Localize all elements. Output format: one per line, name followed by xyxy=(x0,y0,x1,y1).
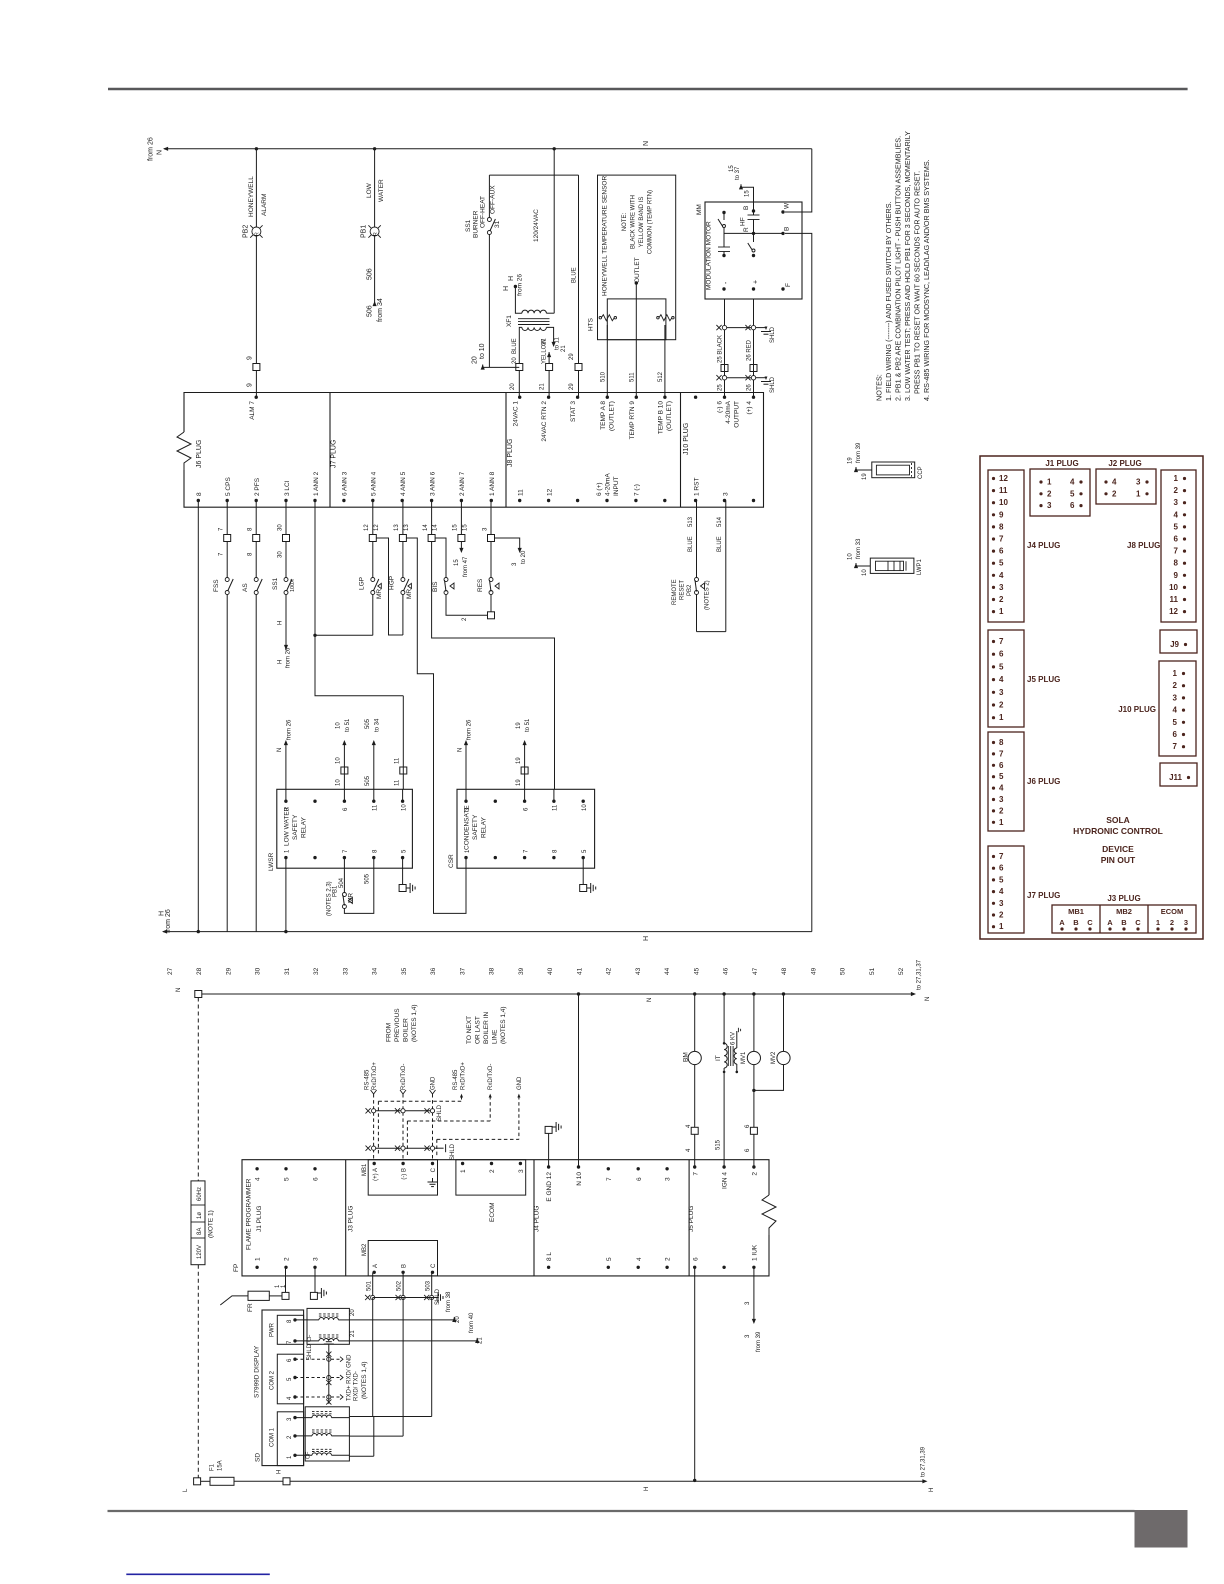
svg-text:2: 2 xyxy=(1047,489,1052,498)
svg-text:2. PB1 & PB2 ARE COMBINATION: 2. PB1 & PB2 ARE COMBINATION PILOT LIGHT… xyxy=(894,136,903,401)
relay LWSR low water safety relay box xyxy=(268,789,412,871)
svg-text:from 26: from 26 xyxy=(517,274,524,296)
pin J8 TEMP RTN 9 xyxy=(629,396,638,440)
svg-text:24VAC 1: 24VAC 1 xyxy=(512,401,519,427)
svg-text:HYDRONIC CONTROL: HYDRONIC CONTROL xyxy=(1073,826,1163,836)
svg-text:14: 14 xyxy=(433,524,439,531)
svg-text:HGP: HGP xyxy=(389,576,396,590)
svg-text:HF: HF xyxy=(740,217,747,226)
pin J7 1 ANN 8 xyxy=(489,471,496,502)
svg-text:502: 502 xyxy=(397,1280,403,1291)
svg-text:2: 2 xyxy=(665,1257,672,1261)
pin J7 6 ANN 3 xyxy=(342,471,349,502)
svg-text:MB1: MB1 xyxy=(362,1163,368,1176)
svg-text:4: 4 xyxy=(999,784,1004,793)
svg-text:6: 6 xyxy=(313,1177,320,1181)
connector ECOM box xyxy=(456,1160,526,1222)
svg-text:HONEYWELL: HONEYWELL xyxy=(248,176,255,217)
svg-text:48: 48 xyxy=(781,967,788,975)
svg-text:(OUTLET): (OUTLET) xyxy=(666,401,673,431)
svg-text:from 47: from 47 xyxy=(463,556,469,577)
svg-text:B: B xyxy=(402,1264,408,1268)
panel J10 plug xyxy=(1118,661,1196,756)
svg-text:5: 5 xyxy=(999,875,1004,884)
svg-text:13: 13 xyxy=(394,524,400,531)
svg-text:511: 511 xyxy=(630,372,636,382)
svg-text:FR: FR xyxy=(247,1303,254,1312)
svg-text:SHLD: SHLD xyxy=(437,1104,443,1121)
svg-text:49: 49 xyxy=(810,967,817,975)
pin J5 1 IUK xyxy=(752,1244,759,1269)
svg-text:11: 11 xyxy=(518,489,525,496)
svg-text:NOTE:: NOTE: xyxy=(622,213,628,232)
svg-text:PWR: PWR xyxy=(270,1322,276,1337)
svg-text:RS-485: RS-485 xyxy=(453,1069,459,1090)
svg-text:7: 7 xyxy=(692,1172,699,1176)
svg-text:to 20: to 20 xyxy=(521,550,527,564)
svg-text:11: 11 xyxy=(999,486,1008,495)
svg-text:BOILER IN: BOILER IN xyxy=(483,1012,490,1044)
svg-text:60Hz: 60Hz xyxy=(197,1187,203,1201)
svg-text:RELAY: RELAY xyxy=(481,817,488,838)
display S7999D box xyxy=(254,1310,304,1466)
wire 26 RED motor plus to J10 xyxy=(745,299,757,397)
svg-text:RESET: RESET xyxy=(680,580,686,600)
svg-text:OUTLET: OUTLET xyxy=(634,257,641,283)
svg-text:RELAY: RELAY xyxy=(301,817,308,838)
rs485 labels from previous boiler xyxy=(386,1004,419,1042)
component LWP1 10 from 33 xyxy=(848,538,924,576)
svg-text:501: 501 xyxy=(366,1280,372,1291)
relay CSR condensate safety relay box xyxy=(448,789,595,868)
svg-text:3: 3 xyxy=(999,899,1004,908)
pin J1 3 bottom xyxy=(313,1257,320,1269)
svg-text:XF1: XF1 xyxy=(506,315,513,327)
wire 21 from 40 xyxy=(349,1312,483,1344)
wire right side drop from N rail to modulation motor W xyxy=(785,149,812,212)
svg-text:H: H xyxy=(277,1470,283,1474)
svg-text:3: 3 xyxy=(999,688,1004,697)
svg-text:E GND 12: E GND 12 xyxy=(546,1172,553,1202)
svg-text:TEMP B 10: TEMP B 10 xyxy=(658,401,665,435)
svg-text:11: 11 xyxy=(373,804,379,811)
wire J5 pin6 to H rail xyxy=(693,1267,696,1482)
svg-text:7: 7 xyxy=(999,535,1004,544)
terminal 2 and switch RES xyxy=(477,501,499,619)
svg-text:28: 28 xyxy=(196,967,203,975)
svg-text:10: 10 xyxy=(1169,583,1178,592)
svg-text:6: 6 xyxy=(999,864,1004,873)
svg-text:26: 26 xyxy=(747,384,753,391)
wire J5 IUK 3 from 39 xyxy=(745,1267,762,1352)
svg-text:3: 3 xyxy=(1184,918,1188,927)
svg-text:B: B xyxy=(1073,918,1079,927)
svg-text:from 26: from 26 xyxy=(286,647,292,668)
svg-text:PB1: PB1 xyxy=(333,885,339,897)
svg-text:513: 513 xyxy=(688,516,694,527)
svg-text:1: 1 xyxy=(255,1257,262,1261)
svg-text:OFF-AUX: OFF-AUX xyxy=(490,185,497,214)
svg-text:44: 44 xyxy=(664,967,671,975)
svg-text:3: 3 xyxy=(999,795,1004,804)
svg-text:SAFETY: SAFETY xyxy=(292,814,299,840)
svg-text:1: 1 xyxy=(999,922,1004,931)
wire 511 outlet xyxy=(630,281,639,397)
svg-text:4: 4 xyxy=(636,1257,643,1261)
display PWR pins 8 7 xyxy=(287,1318,319,1344)
svg-text:503: 503 xyxy=(425,1280,431,1291)
wire terminal 14 to CSR pin 11 xyxy=(432,542,555,790)
svg-text:120/24VAC: 120/24VAC xyxy=(533,209,540,242)
page number box bottom right xyxy=(1135,1510,1188,1548)
svg-text:MR: MR xyxy=(376,589,383,599)
svg-text:N: N xyxy=(157,150,164,155)
svg-text:4: 4 xyxy=(999,675,1004,684)
svg-text:F1: F1 xyxy=(210,1463,216,1471)
pin J6 ALM 7 top xyxy=(249,396,258,420)
svg-text:ALM 7: ALM 7 xyxy=(249,401,256,420)
svg-text:2: 2 xyxy=(1173,681,1178,690)
svg-text:15A: 15A xyxy=(218,1460,224,1471)
svg-text:11: 11 xyxy=(1170,595,1179,604)
svg-text:COM 1: COM 1 xyxy=(270,1427,276,1447)
svg-text:14: 14 xyxy=(423,524,429,531)
svg-text:2: 2 xyxy=(1174,486,1179,495)
svg-text:11: 11 xyxy=(395,757,401,764)
modulation motor MM box xyxy=(696,202,802,299)
pin J8 TEMP A 8 (OUTLET) xyxy=(600,396,616,431)
svg-text:8: 8 xyxy=(196,492,203,496)
svg-text:3: 3 xyxy=(313,1257,320,1261)
svg-text:PRESS PB1 TO RESET OR WAIT 60: PRESS PB1 TO RESET OR WAIT 60 SECONDS FO… xyxy=(913,171,922,394)
svg-text:4. RS-485 WIRING FOR MODSYNC,: 4. RS-485 WIRING FOR MODSYNC, LEAD/LAG A… xyxy=(922,159,931,401)
svg-text:10: 10 xyxy=(336,779,342,786)
svg-text:R: R xyxy=(743,227,750,232)
svg-text:8 L: 8 L xyxy=(546,1252,553,1261)
svg-text:50: 50 xyxy=(840,967,847,975)
svg-text:from 38: from 38 xyxy=(446,1291,452,1312)
pin J4 8 L xyxy=(546,1252,553,1269)
svg-text:515: 515 xyxy=(716,1139,722,1150)
svg-text:TO NEXT: TO NEXT xyxy=(466,1016,473,1044)
svg-text:12: 12 xyxy=(999,474,1008,483)
svg-text:PB1: PB1 xyxy=(361,225,368,238)
svg-text:(NOTES 2): (NOTES 2) xyxy=(705,580,711,610)
svg-text:7: 7 xyxy=(1173,742,1178,751)
svg-text:OFF-HEAT: OFF-HEAT xyxy=(480,196,487,228)
svg-text:32: 32 xyxy=(313,967,320,975)
svg-text:5: 5 xyxy=(1173,718,1178,727)
svg-text:1ø: 1ø xyxy=(197,1212,203,1219)
svg-text:12: 12 xyxy=(364,524,370,531)
svg-text:1 IUK: 1 IUK xyxy=(752,1244,759,1261)
svg-text:3: 3 xyxy=(1173,693,1178,702)
svg-text:505: 505 xyxy=(365,775,371,786)
wire 510 xyxy=(601,325,608,397)
svg-text:7: 7 xyxy=(999,637,1004,646)
svg-text:2: 2 xyxy=(284,1257,291,1261)
svg-text:37: 37 xyxy=(459,967,466,975)
svg-text:BM: BM xyxy=(683,1052,690,1062)
pin J8 24VAC 1 xyxy=(512,396,521,427)
svg-text:J5 PLUG: J5 PLUG xyxy=(1027,675,1060,684)
panel J9 plug xyxy=(1160,630,1197,653)
svg-text:10: 10 xyxy=(862,569,868,576)
svg-text:1: 1 xyxy=(1136,489,1141,498)
svg-text:3. LOW WATER TEST; PRESS AND: 3. LOW WATER TEST; PRESS AND HOLD PB1 FO… xyxy=(903,131,912,401)
svg-text:15: 15 xyxy=(454,559,460,566)
svg-text:H: H xyxy=(929,1488,935,1492)
svg-text:505: 505 xyxy=(365,873,371,884)
svg-text:MR: MR xyxy=(348,893,355,903)
terminal 30 and switch SS1 to H xyxy=(272,501,296,669)
display COM1 pins xyxy=(287,1416,312,1459)
svg-text:+: + xyxy=(753,280,760,284)
rs485 wiring MB1 cluster xyxy=(365,1062,457,1160)
svg-text:10: 10 xyxy=(848,553,854,560)
svg-text:39: 39 xyxy=(518,967,525,975)
svg-text:RxD/TxD+: RxD/TxD+ xyxy=(461,1062,467,1090)
pin J6 5 CPS xyxy=(225,477,232,503)
svg-text:H: H xyxy=(503,286,510,291)
flame rod FR xyxy=(220,1267,289,1312)
wire N to J4 pin N 10 xyxy=(578,994,580,1167)
pin J10 1 RST xyxy=(693,478,700,503)
svg-text:2 PFS: 2 PFS xyxy=(254,477,261,496)
pilot light PB1 LOW WATER, wire 506 xyxy=(361,147,385,322)
svg-text:4: 4 xyxy=(1070,478,1075,487)
svg-text:ALARM: ALARM xyxy=(261,194,268,216)
svg-text:J10 PLUG: J10 PLUG xyxy=(683,423,690,455)
terminal 8 and switch AS xyxy=(242,501,262,932)
pin J10 blank bottom xyxy=(752,499,755,502)
svg-text:(NOTES 1,4): (NOTES 1,4) xyxy=(411,1004,418,1042)
svg-text:H: H xyxy=(643,936,650,941)
svg-text:12: 12 xyxy=(1169,607,1178,616)
svg-text:36: 36 xyxy=(430,967,437,975)
pin J1 5 top xyxy=(284,1167,291,1181)
svg-text:BLUE: BLUE xyxy=(512,338,518,354)
svg-text:5 CPS: 5 CPS xyxy=(225,477,232,496)
svg-text:LWSR: LWSR xyxy=(268,852,275,871)
pin J8 6 (+) 4-20mA INPUT xyxy=(596,473,620,503)
svg-text:to 51: to 51 xyxy=(525,718,531,732)
svg-text:J8 PLUG: J8 PLUG xyxy=(507,439,514,467)
motor valve MV1 xyxy=(741,994,761,1167)
svg-text:FP: FP xyxy=(233,1264,240,1272)
svg-text:W: W xyxy=(784,202,791,209)
svg-text:8A: 8A xyxy=(197,1228,203,1235)
svg-text:19: 19 xyxy=(516,722,522,729)
svg-text:TEMP RTN 9: TEMP RTN 9 xyxy=(629,401,636,440)
svg-text:12: 12 xyxy=(546,488,553,496)
panel J11 plug xyxy=(1160,763,1197,786)
panel J7 plug xyxy=(988,846,1060,933)
svg-text:BURNER: BURNER xyxy=(473,210,480,238)
svg-text:9: 9 xyxy=(247,383,254,387)
svg-text:J6 PLUG: J6 PLUG xyxy=(196,440,203,468)
svg-text:SOLA: SOLA xyxy=(1106,815,1130,825)
pin J10 (-) 6 4-20mA OUTPUT xyxy=(717,396,741,428)
svg-text:from 26: from 26 xyxy=(165,909,172,933)
svg-text:9: 9 xyxy=(999,510,1004,519)
svg-text:N: N xyxy=(643,141,650,146)
wire LWSR pin11 505 to 34 xyxy=(365,718,380,789)
svg-text:BOILER: BOILER xyxy=(403,1018,410,1042)
pin J6 8 xyxy=(196,492,203,502)
svg-text:19: 19 xyxy=(516,757,522,764)
pin J10 (+) 4 xyxy=(746,396,755,415)
svg-text:7: 7 xyxy=(999,852,1004,861)
pin J7 3 ANN 6 xyxy=(429,471,436,502)
terminal 12 and switch LGP xyxy=(313,501,383,638)
pin J1 4 top xyxy=(255,1167,262,1181)
svg-text:S7999D DISPLAY: S7999D DISPLAY xyxy=(254,1345,261,1398)
svg-text:6: 6 xyxy=(999,547,1004,556)
page bottom border xyxy=(108,1510,1135,1512)
svg-text:21: 21 xyxy=(561,345,567,352)
choke filter CF PWR box xyxy=(307,1308,349,1344)
svg-text:25: 25 xyxy=(718,384,724,391)
svg-text:1. FIELD WIRING (-------) AND: 1. FIELD WIRING (-------) AND FUSED SWIT… xyxy=(884,201,893,401)
svg-text:J10 PLUG: J10 PLUG xyxy=(1118,705,1156,714)
pin J7 5 ANN 4 xyxy=(371,471,378,502)
svg-text:27: 27 xyxy=(167,967,174,975)
svg-text:J9: J9 xyxy=(1170,640,1179,649)
sola pinout panel outer box xyxy=(980,456,1203,939)
svg-text:5: 5 xyxy=(1070,489,1075,498)
wire terminal 13 to CSR pin 1 xyxy=(406,538,466,913)
svg-text:CF: CF xyxy=(307,1334,313,1342)
svg-text:2 ANN 7: 2 ANN 7 xyxy=(459,471,466,496)
panel J1 plug xyxy=(1030,459,1090,516)
svg-text:SS1: SS1 xyxy=(465,219,472,232)
wire 3 to 20 stub xyxy=(482,527,527,566)
svg-text:LOW WATER: LOW WATER xyxy=(284,806,291,846)
svg-text:21: 21 xyxy=(350,1330,356,1337)
svg-text:20: 20 xyxy=(350,1309,356,1316)
svg-text:19: 19 xyxy=(516,779,522,786)
svg-text:29: 29 xyxy=(225,967,232,975)
wire 25 BLACK motor minus to J10 xyxy=(716,299,751,397)
svg-text:3 LCI: 3 LCI xyxy=(284,480,291,496)
svg-text:30: 30 xyxy=(255,967,262,975)
svg-text:7: 7 xyxy=(606,1177,613,1181)
pilot light PB2 HONEYWELL ALARM xyxy=(243,147,269,363)
svg-text:COM 2: COM 2 xyxy=(270,1370,276,1390)
svg-text:REMOTE: REMOTE xyxy=(672,579,678,605)
ground E GND terminal xyxy=(545,1122,561,1167)
pin J7 4 ANN 5 xyxy=(400,471,407,502)
svg-text:5 ANN 4: 5 ANN 4 xyxy=(371,471,378,496)
svg-text:RxD/TxD-: RxD/TxD- xyxy=(488,1064,494,1090)
svg-text:1 ANN 8: 1 ANN 8 xyxy=(489,471,496,496)
svg-text:1: 1 xyxy=(1173,669,1178,678)
svg-text:4: 4 xyxy=(1112,478,1117,487)
pin J8 STAT 3 xyxy=(570,396,579,422)
pin J10 blank top xyxy=(694,396,697,399)
svg-text:15: 15 xyxy=(745,190,751,197)
svg-text:31: 31 xyxy=(494,220,501,228)
pin J4 N 10 xyxy=(576,1165,583,1185)
svg-text:SHLD: SHLD xyxy=(770,326,776,343)
svg-text:1: 1 xyxy=(1047,478,1052,487)
svg-text:4-20mA: 4-20mA xyxy=(605,473,612,496)
svg-text:from 26: from 26 xyxy=(148,137,155,161)
svg-text:10: 10 xyxy=(336,757,342,764)
pin J10 3 xyxy=(722,492,729,502)
svg-text:RES: RES xyxy=(477,578,484,592)
pin J4 7 top xyxy=(606,1167,613,1181)
svg-text:MB1: MB1 xyxy=(1068,907,1084,916)
terminal 13 and switch HGP xyxy=(389,501,413,636)
pin J7 2 ANN 7 xyxy=(459,471,466,502)
svg-text:9: 9 xyxy=(247,356,254,360)
pin J4 E GND 12 xyxy=(546,1165,553,1201)
svg-text:GND: GND xyxy=(517,1076,523,1090)
svg-text:RXD/ TXD-: RXD/ TXD- xyxy=(354,1371,360,1401)
panel J3 plug xyxy=(1052,894,1196,933)
svg-text:4: 4 xyxy=(999,571,1004,580)
svg-text:H: H xyxy=(277,621,283,625)
svg-text:2: 2 xyxy=(999,806,1004,815)
svg-text:120V: 120V xyxy=(197,1245,203,1259)
connector MB1 box xyxy=(362,1160,438,1195)
svg-text:from 26: from 26 xyxy=(467,719,473,740)
pin J5 7 top xyxy=(692,1165,699,1175)
svg-text:35: 35 xyxy=(401,967,408,975)
svg-text:20: 20 xyxy=(472,356,479,364)
svg-text:SHLD: SHLD xyxy=(450,1143,456,1160)
svg-text:LOW: LOW xyxy=(366,182,373,198)
svg-text:SHLD: SHLD xyxy=(435,1288,441,1305)
svg-text:15: 15 xyxy=(453,524,459,531)
svg-text:J3 PLUG: J3 PLUG xyxy=(348,1206,355,1232)
svg-text:10: 10 xyxy=(401,804,407,811)
svg-text:GND: GND xyxy=(430,1076,436,1090)
wire 15 to 37 from motor B xyxy=(729,165,754,211)
pin J6 3 LCI xyxy=(284,480,291,502)
svg-text:to 37: to 37 xyxy=(735,166,741,180)
svg-text:11: 11 xyxy=(395,779,401,786)
svg-text:PB2: PB2 xyxy=(687,584,693,596)
pin J8 TEMP B 10 (OUTLET) xyxy=(658,396,674,435)
svg-text:6: 6 xyxy=(636,1177,643,1181)
svg-text:from 33: from 33 xyxy=(856,538,862,559)
svg-text:4-20mA: 4-20mA xyxy=(725,400,732,423)
svg-text:ECOM: ECOM xyxy=(489,1203,496,1223)
pin J4 5 bottom xyxy=(606,1257,613,1269)
svg-text:J1 PLUG: J1 PLUG xyxy=(256,1206,263,1232)
svg-text:100X: 100X xyxy=(290,579,296,592)
wire terminal 12 interlock to HGP bottom xyxy=(376,538,403,635)
svg-text:5: 5 xyxy=(999,559,1004,568)
svg-text:3 ANN 6: 3 ANN 6 xyxy=(429,471,436,496)
svg-text:4: 4 xyxy=(1173,706,1178,715)
svg-text:20: 20 xyxy=(510,383,516,390)
supply label box 120V 8A 60Hz xyxy=(191,1181,215,1265)
svg-text:1: 1 xyxy=(999,818,1004,827)
svg-text:to 27,31,37: to 27,31,37 xyxy=(917,959,923,990)
svg-text:H: H xyxy=(644,1487,650,1491)
svg-text:8: 8 xyxy=(1174,559,1179,568)
svg-text:N: N xyxy=(176,988,182,992)
ground LWSR pin5 xyxy=(399,868,415,893)
svg-text:1: 1 xyxy=(1174,474,1179,483)
choke filter CF COM1 box xyxy=(305,1407,349,1461)
svg-text:NOTES:: NOTES: xyxy=(875,374,884,401)
svg-text:HTS: HTS xyxy=(588,317,595,331)
